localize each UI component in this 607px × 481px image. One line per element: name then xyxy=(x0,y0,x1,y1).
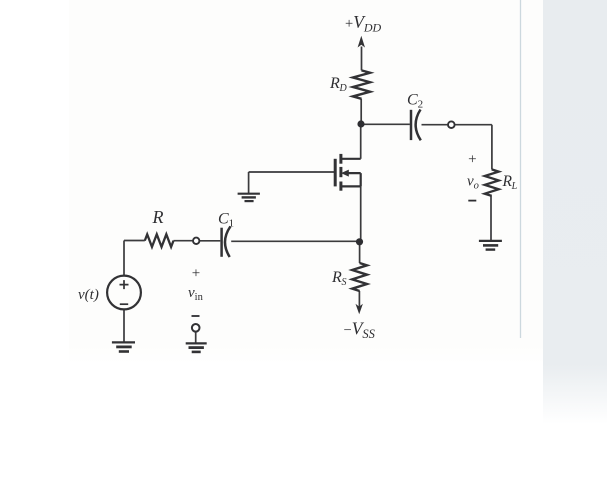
ground vin xyxy=(186,343,207,352)
input open circle xyxy=(193,238,199,244)
wire C2 to output circle xyxy=(422,124,449,126)
node source dot xyxy=(356,238,363,245)
wire vin terminal stub xyxy=(195,331,197,343)
resistor RD xyxy=(353,70,370,98)
ground gate xyxy=(238,194,260,201)
wire node to C2 xyxy=(361,123,410,125)
resistor RS xyxy=(352,263,367,291)
output open circle xyxy=(448,121,455,128)
scanned page area xyxy=(69,0,543,364)
svg-text:+: + xyxy=(192,266,200,282)
scanned page right gray band xyxy=(543,0,607,424)
wire drain up to node xyxy=(360,124,362,159)
svg-text:R: R xyxy=(152,207,164,227)
wire circle to RL top corner xyxy=(455,125,492,170)
ground v(t) xyxy=(112,342,135,351)
wire source down to node xyxy=(360,186,362,241)
wire gate to ground xyxy=(249,172,336,194)
wire VDD arrow line xyxy=(361,47,363,71)
MOSFET body arrow head xyxy=(341,170,349,177)
MOSFET Q1 xyxy=(335,154,361,191)
wire RD to node xyxy=(360,99,362,124)
voltage source v(t) xyxy=(107,276,141,310)
wire C1 to source node xyxy=(231,240,359,242)
wire RL bottom to ground xyxy=(490,196,492,240)
svg-text:+: + xyxy=(468,152,476,168)
label vin minus xyxy=(192,315,200,317)
page edge line xyxy=(520,0,522,338)
VSS arrow head xyxy=(356,304,363,314)
wire v(t) bottom to ground xyxy=(123,309,125,342)
ground RL xyxy=(479,241,502,250)
capacitor C1 xyxy=(222,226,231,257)
wire RS to VSS arrow xyxy=(358,291,360,307)
node drain dot xyxy=(357,120,364,127)
VDD arrow head xyxy=(358,36,365,48)
vin terminal open circle xyxy=(192,324,200,332)
wire R to input open circle xyxy=(174,240,194,242)
wire v(t) top corner to R xyxy=(124,241,145,276)
resistor RL xyxy=(485,169,499,195)
wire open circle to C1 xyxy=(199,240,220,242)
capacitor C2 xyxy=(411,110,421,141)
wire node to RS xyxy=(359,242,361,263)
resistor R xyxy=(145,234,174,247)
svg-text:v(t): v(t) xyxy=(78,287,99,303)
label vo minus xyxy=(468,200,476,202)
